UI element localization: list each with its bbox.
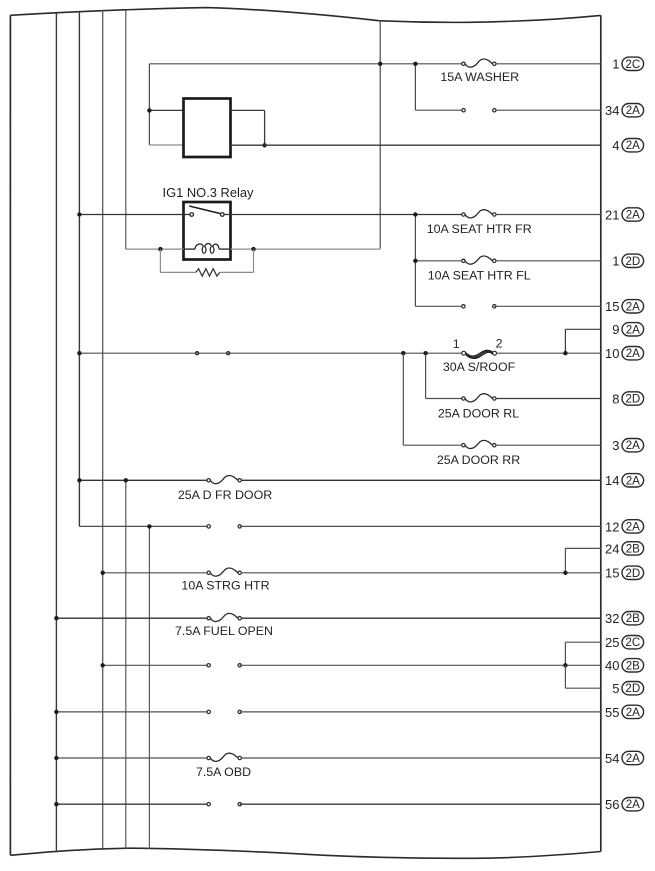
terminal 9 2A (pin 9 connector 2A) (612, 322, 643, 337)
wire row7 to terminal 9 2A (565, 328, 600, 330)
fuse F10 7.5A OBD (207, 753, 241, 761)
wire coil lead inside relay (184, 248, 196, 250)
terminal 3 2A (pin 3 connector 2A) (612, 438, 643, 453)
svg-text:2B: 2B (626, 612, 640, 625)
wire row9 drop from row8 (425, 353, 427, 398)
wire bus B3 (x=103) (102, 10, 104, 848)
svg-text:8: 8 (612, 391, 619, 406)
node row8/9-branch junction (563, 351, 567, 355)
relay K1 switch blade (189, 206, 220, 214)
node U1 upper-left junction (147, 108, 151, 112)
svg-text:30A S/ROOF: 30A S/ROOF (443, 360, 516, 374)
wire row9 left segment (426, 398, 462, 400)
terminal 14 2A (pin 14 connector 2A) (605, 473, 644, 488)
svg-text:12: 12 (605, 519, 619, 534)
wire row5 left segment (415, 260, 461, 262)
coil L1 of relay K1 (195, 244, 219, 254)
svg-text:2: 2 (496, 337, 503, 351)
svg-text:25A DOOR RR: 25A DOOR RR (437, 453, 520, 467)
label fuse F4 pin 1 (453, 337, 460, 351)
wire bus B1 (x=56) (55, 13, 57, 851)
wire row4 left segment (bus B2 to relay) (79, 214, 189, 216)
svg-text:10A SEAT HTR FR: 10A SEAT HTR FR (427, 222, 532, 236)
wire row2 left segment (415, 109, 463, 111)
svg-text:2A: 2A (626, 347, 640, 360)
wire resistor right rise (253, 249, 255, 272)
svg-text:2A: 2A (626, 209, 640, 222)
fuse F7 25A D FR DOOR (207, 475, 241, 483)
junction block outline bottom edge (10, 848, 600, 858)
svg-text:2B: 2B (626, 542, 640, 555)
label fuse F6 value (437, 453, 520, 467)
wire row17 right segment (240, 664, 601, 666)
fuse socket S6 (open) left clip (207, 803, 210, 806)
svg-text:10A STRG HTR: 10A STRG HTR (181, 578, 269, 592)
svg-text:25A D FR DOOR: 25A D FR DOOR (178, 488, 272, 502)
node row4/V2b junction (413, 212, 417, 216)
svg-text:10: 10 (605, 346, 619, 361)
wire row18 drop from row17 (564, 665, 566, 688)
node row21/bus B1 junction (54, 802, 58, 806)
terminal 1 2C (pin 1 connector 2C) (612, 57, 643, 72)
svg-text:32: 32 (605, 611, 619, 626)
terminal 15 2D (pin 15 connector 2D) (605, 566, 644, 581)
svg-text:7.5A FUEL OPEN: 7.5A FUEL OPEN (175, 624, 273, 638)
fuse F8 10A STRG HTR (207, 568, 241, 576)
wire row16 drop to row17 (564, 642, 566, 665)
wire row6 left segment (415, 305, 463, 307)
wire feed V2b (x=415 relay out to seat-htr rows) (414, 215, 416, 307)
terminal 4 2A (pin 4 connector 2A) (612, 138, 643, 153)
wire bus B4 upper (x=126, to relay coil) (125, 10, 127, 249)
wire row21 right segment (240, 803, 601, 805)
node row19/bus B1 junction (54, 710, 58, 714)
node row15/bus B1 junction (54, 616, 58, 620)
wire row12 right segment (240, 525, 601, 527)
svg-text:IG1 NO.3 Relay: IG1 NO.3 Relay (163, 185, 255, 200)
svg-text:15: 15 (605, 299, 619, 314)
wire row1 to fuse F1 (149, 63, 461, 65)
wire coil row left (bus B4 to relay) (126, 248, 184, 250)
junction block outline left edge (torn) (9, 15, 11, 855)
terminal 56 2A (pin 56 connector 2A) (605, 797, 644, 812)
fuse F1 15A WASHER (462, 59, 496, 67)
wire coil row right (relay to feed V1) (231, 248, 381, 250)
wire row12 left segment (79, 525, 208, 527)
wire feed V1 (x=380 from top edge to relay coil) (379, 21, 381, 249)
wire resistor left lead (160, 271, 195, 273)
relay K1 switch left contact (190, 213, 194, 217)
junction block outline top edge (10, 8, 600, 23)
label fuse F5 value (438, 407, 519, 421)
svg-text:40: 40 (605, 658, 619, 673)
wire row2 right segment (494, 109, 601, 111)
terminal 12 2A (pin 12 connector 2A) (605, 519, 644, 534)
svg-text:15: 15 (605, 566, 619, 581)
terminal 55 2A (pin 55 connector 2A) (605, 705, 644, 720)
svg-text:14: 14 (605, 473, 619, 488)
wire row4 fuse to terminal 21 2A (496, 214, 601, 216)
fuse F4 30A S/ROOF (fusible link) (462, 350, 497, 358)
svg-text:55: 55 (605, 705, 619, 720)
label fuse F4 value (443, 360, 516, 374)
label fuse F3 value (428, 269, 531, 283)
terminal 24 2B (pin 24 connector 2B) (605, 541, 644, 556)
svg-text:15A WASHER: 15A WASHER (440, 70, 519, 84)
fuse socket S1 (open) right clip (493, 109, 496, 112)
component U1 (unlabeled block) (184, 99, 231, 158)
svg-text:2A: 2A (626, 474, 640, 487)
wire row8 fuse to terminal 10 2A (497, 352, 601, 354)
terminal 8 2D (pin 8 connector 2D) (612, 391, 643, 406)
svg-text:2D: 2D (625, 682, 640, 695)
wire row14 left segment (103, 572, 207, 574)
svg-text:2D: 2D (625, 393, 640, 406)
wire row15 fuse to terminal 32 2B (241, 617, 600, 619)
node coil/resistor right junction (251, 247, 255, 251)
fuse socket S3 (open) left clip (207, 525, 210, 528)
wire bus B2 (x=79) (78, 12, 80, 527)
node row14/bus B3 junction (101, 571, 105, 575)
node row1/V1 junction (378, 62, 382, 66)
terminal 5 2D (pin 5 connector 2D) (612, 681, 643, 696)
node row8/bus B2 junction (77, 351, 81, 355)
wire row16 to terminal 25 2C (565, 641, 600, 643)
wire U1 right loop vertical (264, 110, 266, 145)
wire row4 right segment (relay to fuse F2) (224, 214, 462, 216)
node row5/V2b junction (413, 259, 417, 263)
node row8 branch to DOOR RL (423, 351, 427, 355)
svg-text:2A: 2A (626, 439, 640, 452)
svg-text:2D: 2D (625, 255, 640, 268)
wire row20 fuse to terminal 54 2A (241, 757, 600, 759)
wire row15 left segment (56, 617, 207, 619)
wire row1 fuse F1 to terminal 1 2C (496, 63, 601, 65)
wire row18 to terminal 5 2D (565, 687, 600, 689)
label fuse F4 pin 2 (496, 337, 503, 351)
label fuse F8 value (181, 578, 269, 592)
terminal 34 2A (pin 34 connector 2A) (605, 103, 644, 118)
label fuse F10 value (196, 765, 251, 779)
fuse socket S4 (open) right clip (238, 664, 241, 667)
node row4/bus B2 junction (77, 212, 81, 216)
svg-text:3: 3 (612, 438, 619, 453)
node row1/V2 junction (413, 62, 417, 66)
label relay K1 name (163, 185, 255, 200)
node row17/branch junction (563, 663, 567, 667)
wire row13 to terminal 24 2B (565, 547, 600, 549)
svg-text:2A: 2A (626, 323, 640, 336)
wire row19 left segment (56, 711, 208, 713)
svg-text:10A SEAT HTR FL: 10A SEAT HTR FL (428, 269, 531, 283)
svg-text:5: 5 (612, 681, 619, 696)
wire row3 to terminal 4 2A (231, 144, 601, 146)
svg-text:4: 4 (612, 138, 619, 153)
fuse F2 10A SEAT HTR FR (462, 210, 496, 218)
fuse socket S3 (open) right clip (238, 525, 241, 528)
svg-text:21: 21 (605, 207, 619, 222)
label fuse F9 value (175, 624, 273, 638)
node row11/bus B4 junction (124, 478, 128, 482)
svg-text:2C: 2C (625, 636, 640, 649)
svg-text:2D: 2D (625, 567, 640, 580)
fuse socket S4 (open) left clip (207, 664, 210, 667)
wire U1 upper-right lead (231, 109, 265, 111)
terminal 54 2A (pin 54 connector 2A) (605, 751, 644, 766)
node row20/bus B1 junction (54, 756, 58, 760)
svg-text:1: 1 (612, 254, 619, 269)
wire row13 drop to row14 (564, 548, 566, 573)
svg-text:2B: 2B (626, 659, 640, 672)
junction block outline right edge (connector face) (600, 15, 602, 851)
connector pass-through P1 left clip (196, 352, 199, 355)
fuse F5 25A DOOR RL (462, 394, 496, 402)
wire resistor left drop (159, 249, 161, 272)
terminal 21 2A (pin 21 connector 2A) (605, 207, 644, 222)
svg-text:24: 24 (605, 541, 619, 556)
fuse F3 10A SEAT HTR FL (462, 256, 496, 264)
wire row21 left segment (56, 803, 208, 805)
terminal 25 2C (pin 25 connector 2C) (605, 635, 644, 650)
svg-text:34: 34 (605, 103, 619, 118)
svg-text:54: 54 (605, 751, 619, 766)
node row8 branch to DOOR RR (401, 351, 405, 355)
wire row11 left segment (79, 479, 207, 481)
wire feed V2a (x=415 row1 to row2) (414, 64, 416, 110)
relay K1 switch right contact (221, 213, 225, 217)
fuse socket S5 (open) left clip (207, 710, 210, 713)
svg-text:56: 56 (605, 797, 619, 812)
resistor R1 (relay shunt) (196, 269, 220, 276)
svg-text:1: 1 (453, 337, 460, 351)
svg-text:2A: 2A (626, 706, 640, 719)
label fuse F7 value (178, 488, 272, 502)
fuse F6 25A DOOR RR (462, 440, 496, 448)
connector pass-through P1 right clip (227, 352, 230, 355)
terminal 40 2B (pin 40 connector 2B) (605, 658, 644, 673)
terminal 1 2D (pin 1 connector 2D) (612, 254, 643, 269)
svg-text:2A: 2A (626, 104, 640, 117)
wire row10 left segment (403, 444, 461, 446)
wire row5 fuse to terminal 1 2D (496, 260, 601, 262)
svg-text:25A DOOR RL: 25A DOOR RL (438, 407, 519, 421)
node row17/bus B3 junction (101, 663, 105, 667)
svg-text:7.5A OBD: 7.5A OBD (196, 765, 251, 779)
wire bus B5 lower (x=149) (148, 526, 150, 849)
node row14/24-branch junction (563, 571, 567, 575)
wire row17 left segment (103, 664, 209, 666)
wire row11 fuse to terminal 14 2A (241, 479, 600, 481)
svg-text:1: 1 (612, 57, 619, 72)
node row12/bus B5 junction (147, 524, 151, 528)
terminal 32 2B (pin 32 connector 2B) (605, 611, 644, 626)
node U1 right loop junction (262, 143, 266, 147)
node row11/bus B2 junction (77, 478, 81, 482)
fuse F9 7.5A FUEL OPEN (207, 613, 241, 621)
wire resistor right lead (220, 271, 254, 273)
fuse socket S2 (open) right clip (493, 305, 496, 308)
fuse socket S1 (open) left clip (462, 109, 465, 112)
svg-text:9: 9 (612, 322, 619, 337)
wire row8 main (bus B2 to fuse F4) (79, 352, 462, 354)
wire row20 left segment (56, 757, 207, 759)
node coil/resistor left junction (158, 247, 162, 251)
terminal 15 2A (pin 15 connector 2A) (605, 299, 644, 314)
wire row14 fuse to terminal 15 2D (241, 572, 600, 574)
svg-text:2A: 2A (626, 139, 640, 152)
label fuse F1 value (440, 70, 519, 84)
label fuse F2 value (427, 222, 532, 236)
wire bus B5 upper (x=149, to box circuit) (148, 64, 150, 145)
svg-text:25: 25 (605, 635, 619, 650)
wire U1 lower-left lead (149, 144, 183, 146)
wire row9 fuse to terminal 8 2D (496, 398, 601, 400)
relay K1 case (184, 202, 231, 260)
svg-text:2A: 2A (626, 520, 640, 533)
terminal 10 2A (pin 10 connector 2A) (605, 346, 644, 361)
wire row10 drop from row8 (402, 353, 404, 445)
wire row6 right segment (494, 305, 601, 307)
svg-text:2A: 2A (626, 798, 640, 811)
wire U1 upper-left lead (149, 109, 183, 111)
wire row19 right segment (240, 711, 601, 713)
fuse socket S5 (open) right clip (238, 710, 241, 713)
svg-text:2A: 2A (626, 752, 640, 765)
wire coil lead to relay case right (219, 248, 231, 250)
fuse socket S2 (open) left clip (462, 305, 465, 308)
svg-text:2A: 2A (626, 300, 640, 313)
wire row10 fuse to terminal 3 2A (496, 444, 601, 446)
fuse socket S6 (open) right clip (238, 803, 241, 806)
wire row7 drop to row8 (564, 329, 566, 353)
svg-text:2C: 2C (625, 58, 640, 71)
wire bus B4 lower (x=126) (125, 480, 127, 848)
